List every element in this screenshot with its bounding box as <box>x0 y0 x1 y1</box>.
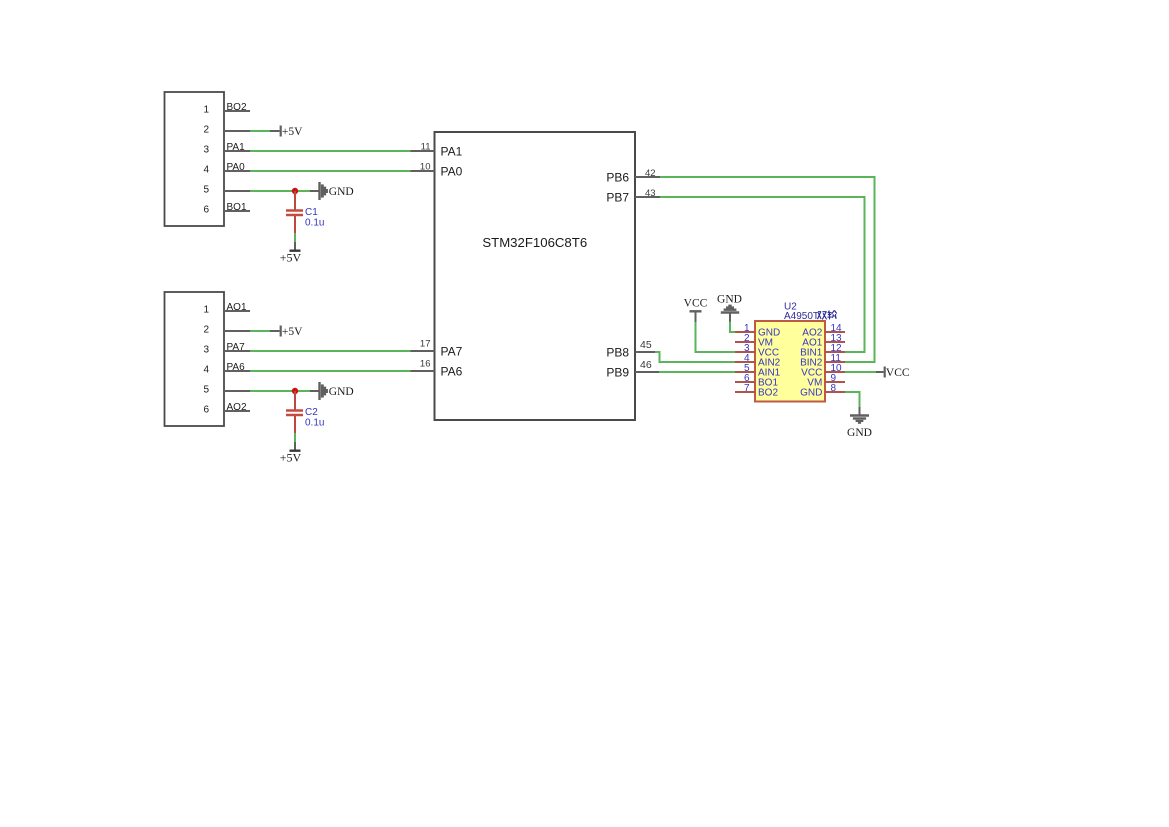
svg-text:5: 5 <box>203 185 209 196</box>
svg-text:BO1: BO1 <box>227 202 247 213</box>
svg-text:PA0: PA0 <box>227 162 246 173</box>
svg-text:10: 10 <box>420 162 431 173</box>
svg-text:BO2: BO2 <box>758 388 778 399</box>
svg-text:2: 2 <box>203 125 209 136</box>
svg-text:3: 3 <box>203 345 209 356</box>
svg-text:PB8: PB8 <box>606 345 629 359</box>
svg-text:PB6: PB6 <box>606 170 629 184</box>
svg-text:2: 2 <box>203 325 209 336</box>
svg-text:PA1: PA1 <box>441 144 463 158</box>
svg-text:8: 8 <box>831 383 837 394</box>
svg-text:0.1u: 0.1u <box>305 218 324 229</box>
svg-text:4: 4 <box>203 365 209 376</box>
svg-text:7: 7 <box>744 383 750 394</box>
svg-text:43: 43 <box>645 188 656 199</box>
svg-text:0.1u: 0.1u <box>305 418 324 429</box>
svg-text:GND: GND <box>329 186 354 198</box>
svg-text:1: 1 <box>203 305 209 316</box>
svg-text:VCC: VCC <box>886 367 910 379</box>
svg-text:GND: GND <box>717 294 742 306</box>
svg-text:GND: GND <box>329 386 354 398</box>
svg-text:PA1: PA1 <box>227 142 246 153</box>
svg-text:STM32F106C8T6: STM32F106C8T6 <box>482 235 587 250</box>
svg-text:A4950T: A4950T <box>784 311 819 322</box>
svg-text:VCC: VCC <box>684 298 708 310</box>
svg-text:AO1: AO1 <box>227 302 247 313</box>
svg-text:16: 16 <box>420 358 431 369</box>
svg-text:PA6: PA6 <box>227 362 246 373</box>
svg-text:+5V: +5V <box>282 326 303 338</box>
svg-text:46: 46 <box>640 359 652 371</box>
svg-text:5: 5 <box>203 385 209 396</box>
svg-text:PA7: PA7 <box>441 344 463 358</box>
svg-text:AO2: AO2 <box>227 402 247 413</box>
svg-text:BO2: BO2 <box>227 102 247 113</box>
svg-text:PB9: PB9 <box>606 365 629 379</box>
svg-text:C1: C1 <box>305 207 318 218</box>
svg-text:PA6: PA6 <box>441 364 463 378</box>
svg-text:PA7: PA7 <box>227 342 246 353</box>
svg-text:+5V: +5V <box>280 451 302 465</box>
svg-text:PB7: PB7 <box>606 190 629 204</box>
svg-text:4: 4 <box>203 165 209 176</box>
svg-text:45: 45 <box>640 339 652 351</box>
svg-text:6: 6 <box>203 205 209 216</box>
svg-text:1: 1 <box>203 105 209 116</box>
svg-text:6: 6 <box>203 405 209 416</box>
svg-text:17: 17 <box>420 338 431 349</box>
svg-text:3: 3 <box>203 145 209 156</box>
svg-text:GND: GND <box>847 427 872 439</box>
svg-text:PA0: PA0 <box>441 164 463 178</box>
svg-text:+5V: +5V <box>282 126 303 138</box>
svg-text:C2: C2 <box>305 407 318 418</box>
svg-text:GND: GND <box>800 388 822 399</box>
svg-text:42: 42 <box>645 168 656 179</box>
svg-text:+5V: +5V <box>280 251 302 265</box>
svg-text:11: 11 <box>421 142 431 153</box>
